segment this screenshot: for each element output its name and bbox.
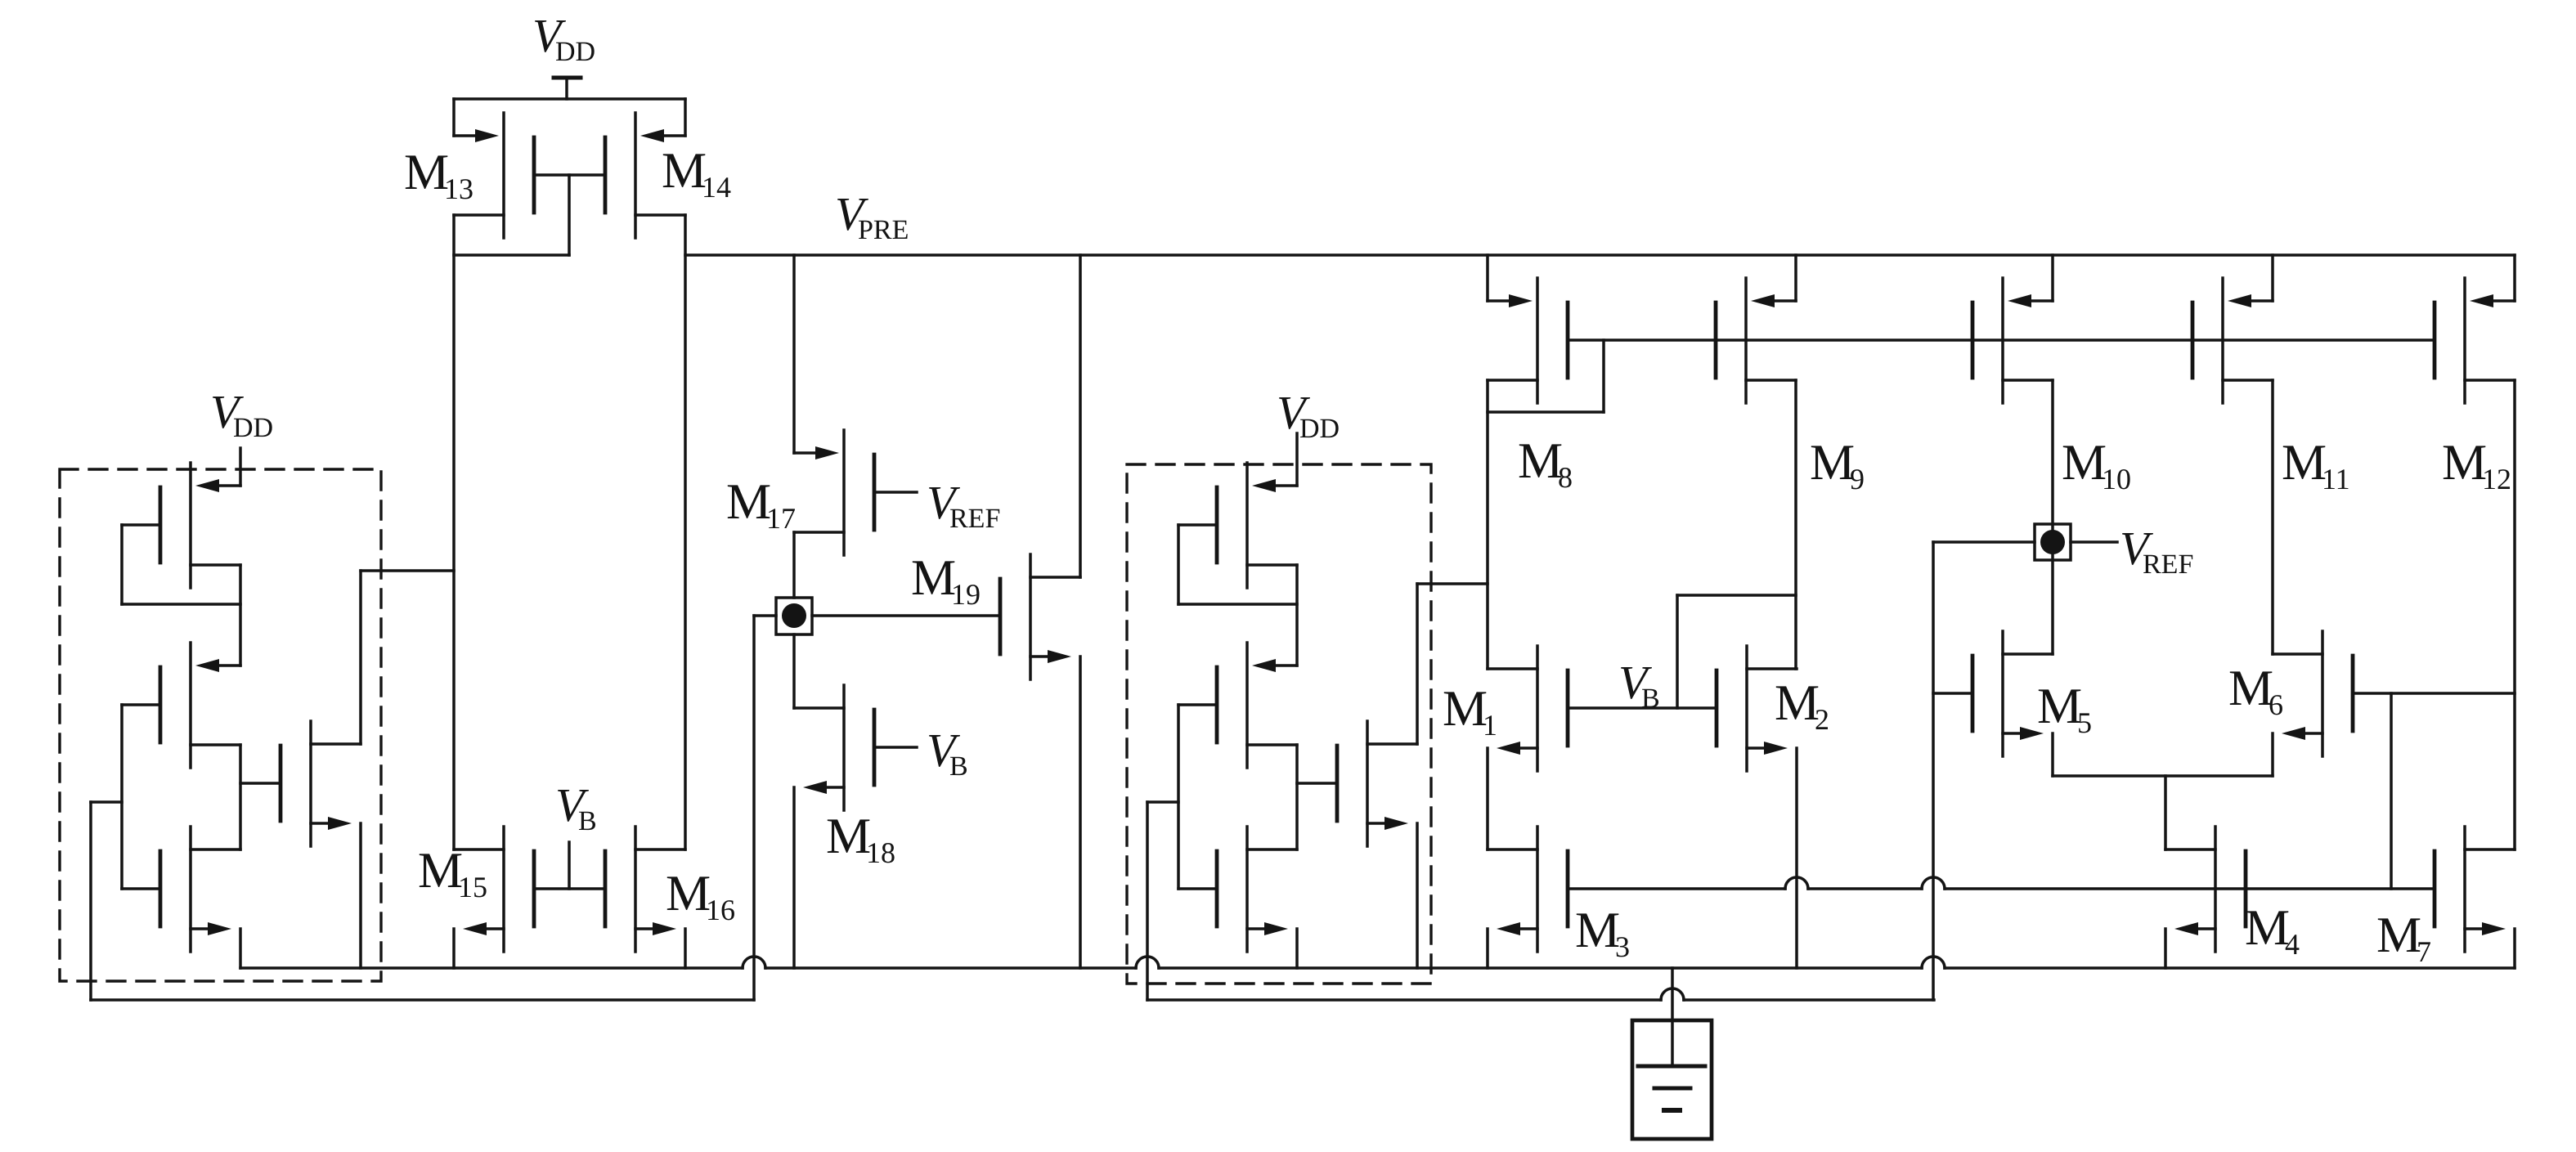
- wire M11 drain to M6 drain: [2271, 380, 2274, 654]
- transistor middle-box P1 (diode PMOS): [1217, 463, 1297, 588]
- wire M14 source to rail: [684, 99, 687, 136]
- label M17: [726, 474, 796, 535]
- label M2: [1775, 675, 1829, 736]
- svg-text:11: 11: [2322, 463, 2350, 495]
- wire left P1 gate-drain loop: [122, 525, 240, 604]
- wire middle P2 drain to N3 drain: [1295, 745, 1299, 849]
- wire M8 gate-drain tie: [1488, 340, 1604, 412]
- wire VPRE to M8 source: [1486, 255, 1489, 301]
- label VB at M15/M16: [555, 778, 597, 836]
- wire VPRE to M19 drain: [1079, 255, 1082, 577]
- wire M16 source to rail: [684, 929, 687, 968]
- wire M10 drain to M5 drain: [2051, 380, 2054, 654]
- wire middle gates to lower VREF rail: [1147, 802, 1178, 1000]
- middle bias block (dashed box): [1127, 464, 1431, 984]
- svg-text:10: 10: [2102, 463, 2131, 495]
- wire middle N4 drain up and out to M1 drain column: [1417, 584, 1488, 744]
- svg-text:15: 15: [458, 871, 487, 903]
- svg-text:16: 16: [706, 894, 735, 926]
- wire M7 source to rail end: [2513, 929, 2516, 968]
- node VREF (dot in square): [2035, 524, 2071, 560]
- transistor M9 (PMOS): [1716, 278, 1796, 403]
- svg-text:B: B: [1641, 684, 1660, 714]
- label M10: [2062, 435, 2131, 495]
- label M6: [2228, 661, 2283, 721]
- wire middle P2/N3 gate tie: [1178, 705, 1217, 889]
- svg-text:8: 8: [1558, 461, 1573, 494]
- wire M13 drain column down to M15 drain: [452, 215, 456, 849]
- wire node to M18 drain: [792, 634, 796, 708]
- transistor M8 (PMOS): [1488, 278, 1568, 403]
- svg-text:M: M: [2228, 661, 2273, 716]
- svg-text:PRE: PRE: [858, 215, 909, 245]
- svg-text:M: M: [2037, 679, 2082, 734]
- wire M6 gate line down to M7 gate: [2390, 693, 2393, 889]
- svg-text:M: M: [404, 145, 449, 200]
- transistor M3 (NMOS tail): [1488, 827, 1568, 952]
- wire VPRE end down to M12 source: [2513, 255, 2516, 301]
- svg-text:M: M: [662, 143, 707, 199]
- transistor M10 (PMOS): [1972, 278, 2053, 403]
- label M18: [826, 809, 895, 869]
- svg-text:5: 5: [2077, 706, 2092, 739]
- label VREF: [2120, 522, 2193, 580]
- svg-text:14: 14: [702, 171, 731, 204]
- transistor M1 (NMOS): [1488, 646, 1568, 771]
- transistor middle-box N3 (NMOS): [1217, 827, 1297, 952]
- wire M13 source to rail: [452, 99, 456, 136]
- svg-text:19: 19: [951, 578, 981, 611]
- wire VDD into left box: [239, 448, 242, 486]
- label VPRE: [835, 187, 909, 245]
- svg-text:13: 13: [444, 173, 473, 205]
- wire VPRE to M17 source: [792, 255, 796, 453]
- wire M17 drain to node: [792, 532, 796, 598]
- transistor M13 (PMOS): [454, 113, 534, 238]
- node VPRE rail: [685, 253, 2515, 257]
- wire VREF distribution rail (middle box gates to VREF node): [1147, 988, 1934, 1000]
- svg-text:2: 2: [1815, 703, 1829, 736]
- svg-text:M: M: [2062, 435, 2107, 491]
- wire middle N4 source to rail: [1416, 823, 1419, 968]
- label VB at M1/M2 gates: [1618, 656, 1660, 714]
- wire left gates to lower VREF rail: [91, 802, 122, 1000]
- svg-text:DD: DD: [233, 413, 273, 443]
- wire M2 source to ground rail: [1795, 748, 1798, 968]
- svg-text:M: M: [666, 866, 711, 921]
- wire M14 drain column down to M16 drain: [684, 215, 687, 849]
- wire left N3 source to rail: [239, 929, 242, 968]
- transistor M17 (PMOS): [794, 430, 874, 555]
- wire M9 drain to M2 drain: [1794, 380, 1797, 669]
- wire VPRE to M9 source: [1794, 255, 1797, 301]
- wire M18 gate lead: [874, 746, 917, 749]
- wire middle P1 gate-drain loop: [1178, 525, 1297, 604]
- wire VDD into middle box: [1295, 433, 1299, 486]
- svg-text:M: M: [2442, 435, 2487, 491]
- label M15: [418, 843, 487, 903]
- svg-text:M: M: [1775, 675, 1820, 731]
- wire M3/M4/M7 gate bias line: [1568, 877, 2435, 889]
- svg-text:M: M: [2376, 908, 2421, 963]
- svg-text:M: M: [1443, 681, 1488, 737]
- svg-text:M: M: [2245, 900, 2290, 956]
- transistor middle-box N4 (NMOS): [1337, 721, 1417, 846]
- wire left P2 drain to N3 drain: [239, 745, 242, 849]
- wire M8-M12 gate line: [1568, 338, 2435, 342]
- wire M9 drain branch to VB line: [1677, 595, 1796, 708]
- transistor M2 (NMOS): [1717, 646, 1797, 771]
- label M8: [1518, 433, 1573, 494]
- wire M12 drain down to M7 drain: [2513, 380, 2516, 849]
- node VREF tap at M19 gate (dot in square): [776, 598, 812, 634]
- wire M18 source to ground rail: [792, 787, 796, 968]
- wire middle N3 source to rail: [1295, 929, 1299, 968]
- wire left P2/N3 gate tie: [122, 705, 160, 889]
- transistor M14 (PMOS): [605, 113, 685, 238]
- wire M13/M14 gate tie: [534, 175, 605, 255]
- wire left N4 source to rail: [359, 823, 362, 968]
- label M1: [1443, 681, 1497, 742]
- svg-text:M: M: [418, 843, 463, 899]
- svg-text:REF: REF: [2143, 549, 2193, 580]
- svg-text:M: M: [911, 550, 956, 606]
- wire VREF node to M5 gate and lower rail: [1933, 542, 2035, 1000]
- wire tail down to M4 drain: [2164, 776, 2167, 849]
- svg-text:M: M: [1810, 435, 1855, 491]
- transistor M11 (PMOS): [2192, 278, 2273, 403]
- wire M13/M14 common source rail: [454, 97, 685, 101]
- transistor middle-box P2 (PMOS): [1217, 643, 1297, 768]
- label VDD (top): [532, 9, 595, 67]
- label M9: [1810, 435, 1865, 495]
- transistor M5 (NMOS diode): [1972, 631, 2053, 756]
- svg-text:REF: REF: [949, 504, 1000, 534]
- svg-text:18: 18: [866, 836, 895, 869]
- svg-text:7: 7: [2417, 935, 2431, 968]
- transistor left-box N3 (NMOS): [160, 827, 240, 952]
- svg-text:1: 1: [1483, 709, 1497, 742]
- svg-text:B: B: [949, 751, 968, 782]
- wire M3 source to rail: [1486, 929, 1489, 968]
- label VDD (left box): [210, 385, 273, 443]
- wire VB line M1-M2 gates: [1568, 706, 1717, 710]
- svg-text:M: M: [1575, 903, 1620, 958]
- label VB at M18 gate: [927, 724, 968, 782]
- transistor M6 (NMOS): [2273, 631, 2353, 756]
- ground symbol (earth in box): [1632, 1020, 1712, 1139]
- svg-text:M: M: [2282, 435, 2327, 491]
- transistor M7 (NMOS diode): [2435, 827, 2515, 952]
- transistor M16 (NMOS): [605, 827, 685, 952]
- wire common source rail (virtual ground): [240, 957, 2515, 968]
- wire left bias-node rail (left box gates to M19-gate node): [91, 998, 754, 1002]
- label M19: [911, 550, 981, 611]
- wire middle N4 gate lead: [1297, 782, 1337, 785]
- label M4: [2245, 900, 2300, 961]
- wire M1 source to M3 drain: [1486, 748, 1489, 849]
- label M14: [662, 143, 731, 204]
- transistor M4 (NMOS tail): [2165, 827, 2246, 952]
- svg-text:9: 9: [1850, 463, 1865, 495]
- wire M19 source to ground rail: [1079, 657, 1082, 968]
- transistor M15 (NMOS): [454, 827, 534, 952]
- left bias block (dashed box): [60, 469, 381, 981]
- label M5: [2037, 679, 2092, 739]
- power VDD supply symbol (top): [554, 78, 581, 99]
- transistor M12 (PMOS): [2435, 278, 2515, 403]
- wire M17 gate lead: [874, 491, 917, 494]
- svg-text:DD: DD: [555, 37, 595, 67]
- transistor M18 (NMOS): [794, 685, 874, 810]
- wire node to M19 gate: [812, 614, 1000, 617]
- label M16: [666, 866, 735, 926]
- wire left N4 gate lead: [240, 782, 280, 785]
- wire left P1 drain to P2 source: [239, 565, 242, 666]
- transistor left-box P1 (diode PMOS): [160, 463, 240, 588]
- wire M15 source to rail: [452, 929, 456, 968]
- svg-text:M: M: [726, 474, 771, 530]
- svg-text:4: 4: [2285, 928, 2300, 961]
- label M12: [2442, 435, 2511, 495]
- wire left N4 drain up and out to M13 drain column: [361, 571, 454, 744]
- label VREF at M17 gate: [927, 476, 1000, 534]
- transistor left-box P2 (PMOS): [160, 643, 240, 768]
- wire M8 drain to M1 drain: [1486, 380, 1489, 669]
- label M13: [404, 145, 473, 205]
- transistor left-box N4 (NMOS): [280, 721, 361, 846]
- wire M15/M16 gate tie with VB stub: [534, 842, 605, 889]
- wire M5/M6 source tail: [2053, 733, 2273, 776]
- wire VPRE to M11 source: [2271, 255, 2274, 301]
- wire M4 source to rail: [2164, 929, 2167, 968]
- wire VREF node label stub: [2071, 540, 2117, 544]
- label M11: [2282, 435, 2350, 495]
- svg-text:17: 17: [766, 502, 796, 535]
- label M7: [2376, 908, 2431, 968]
- svg-text:12: 12: [2482, 463, 2511, 495]
- wire middle P1 drain to P2 source: [1295, 565, 1299, 666]
- transistor M19 (NMOS): [1000, 554, 1080, 679]
- svg-text:B: B: [578, 806, 597, 836]
- svg-text:6: 6: [2269, 688, 2283, 721]
- svg-text:DD: DD: [1299, 414, 1340, 444]
- svg-text:3: 3: [1615, 930, 1630, 963]
- svg-text:M: M: [1518, 433, 1563, 489]
- wire M13 drain to gate tie: [454, 253, 569, 257]
- wire ground stem: [1671, 968, 1674, 1066]
- label M3: [1575, 903, 1630, 963]
- wire VPRE to M10 source: [2051, 255, 2054, 301]
- wire M6 gate line to M12 drain column: [2353, 692, 2515, 695]
- svg-text:M: M: [826, 809, 871, 864]
- label VDD (middle box): [1277, 386, 1340, 444]
- wire node to lower VREF rail: [754, 616, 776, 1000]
